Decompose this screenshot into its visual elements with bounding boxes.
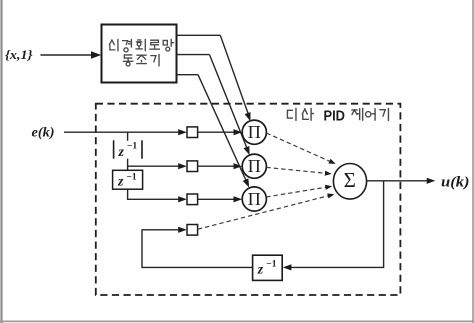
label syllable eo [366, 109, 375, 120]
svg-text:Σ: Σ [344, 168, 356, 192]
svg-text:Π: Π [248, 189, 261, 209]
svg-text:z: z [118, 145, 125, 160]
wire tuner output 3 diagonal [198, 75, 247, 182]
dashed wire W4 to sum [198, 196, 328, 229]
text line1 syllable hoe [136, 40, 145, 51]
arrowhead into tuner box [91, 51, 101, 59]
product node P2 circle [242, 154, 266, 178]
label syllable gi2 [380, 109, 389, 121]
svg-text:−1: −1 [266, 259, 276, 269]
wire Z3 to W4 [142, 230, 253, 268]
arrowhead into weight W2 [178, 163, 187, 169]
arrowhead into weight W1 [178, 129, 187, 135]
delay Z1 label z^-1 [118, 141, 138, 160]
label syllable san [302, 109, 313, 121]
dashed box discrete PID controller [96, 104, 401, 295]
text line2 syllable gi [151, 55, 159, 66]
svg-text:z: z [257, 262, 264, 277]
weight block W3 square [187, 194, 198, 205]
arrowhead output u(k) [427, 178, 436, 184]
label syllable di [287, 109, 296, 121]
text line1 syllable sin [109, 40, 118, 51]
text line1 syllable mang [163, 40, 173, 52]
delay Z1 left bar [113, 140, 115, 158]
delay Z2 box [113, 170, 143, 189]
wire sum to output [367, 180, 428, 182]
arrowhead into delay Z3 [283, 264, 292, 270]
wire tuner output 2 horizontal [177, 54, 210, 56]
wire e(k) row1 [64, 131, 180, 133]
arrowhead into product P1 [245, 112, 251, 121]
arrowhead into weight W4 [178, 227, 187, 233]
delay Z2 label z^-1 [117, 172, 137, 189]
wire branch down from row1 [127, 132, 129, 141]
text line1 syllable ro [150, 40, 159, 49]
wire tuner output 3 horizontal [177, 74, 199, 76]
weight block W1 square [187, 127, 198, 138]
arrowhead P2 to sum [325, 171, 332, 176]
text line2 syllable jo [137, 55, 146, 63]
label input e(k) [32, 125, 55, 140]
product node P1 circle [242, 120, 266, 144]
text line1 syllable gyeong [123, 40, 132, 52]
arrowhead into product P2 [244, 146, 250, 155]
arrowhead into product P2 left [234, 163, 243, 169]
wire Z1 to Z2 [127, 159, 129, 171]
wire W2 to product P2 [198, 165, 236, 167]
arrowhead into product P3 left [234, 196, 243, 202]
label input {x,1} [5, 47, 33, 62]
label output u(k) [441, 174, 470, 190]
frame right border [472, 0, 474, 323]
wire W1 to product P1 [198, 131, 236, 133]
arrowhead into product P3 [243, 178, 249, 187]
weight block W2 square [187, 161, 198, 172]
frame bottom border [0, 320, 474, 322]
frame left border [0, 0, 2, 323]
svg-text:−1: −1 [127, 141, 137, 151]
wire W3 to product P3 [198, 198, 236, 200]
delay Z3 label z^-1 [257, 259, 277, 277]
wire row2 tap [128, 165, 180, 167]
wire tuner output 2 diagonal [210, 55, 248, 149]
block U1 neural-network tuner box [102, 25, 177, 83]
dashed wire P3 to sum [266, 187, 325, 197]
product node P3 circle [242, 187, 266, 211]
dashed wire P1 to sum [266, 133, 329, 161]
wire input to tuner box [41, 54, 95, 56]
svg-text:u(k): u(k) [441, 174, 470, 190]
wire Z2 to row3 [128, 189, 180, 199]
wire feedback branch down [290, 181, 384, 268]
weight block W4 square [187, 225, 198, 236]
arrowhead into weight W3 [178, 196, 187, 202]
svg-text:Π: Π [248, 156, 261, 176]
wire tuner output 1 diagonal [220, 35, 248, 114]
arrowhead W4 to sum [327, 193, 334, 198]
dashed wire P2 to sum [266, 167, 325, 173]
arrowhead into product P1 left [234, 129, 243, 135]
label syllable je [352, 109, 363, 121]
wire tuner output 1 horizontal [177, 34, 221, 36]
text line2 syllable dong [123, 55, 132, 66]
svg-text:−1: −1 [127, 172, 137, 182]
svg-text:{x,1}: {x,1} [5, 47, 33, 62]
svg-text:z: z [117, 174, 124, 189]
sum node S1 circle [333, 164, 366, 200]
svg-text:PID: PID [324, 108, 346, 125]
svg-text:Π: Π [248, 122, 261, 142]
delay Z1 right bar [141, 140, 143, 158]
svg-text:e(k): e(k) [32, 125, 55, 140]
arrowhead P3 to sum [325, 185, 332, 190]
label text PID [324, 108, 346, 125]
arrowhead P1 to sum [328, 159, 335, 164]
delay Z3 box [253, 255, 283, 280]
